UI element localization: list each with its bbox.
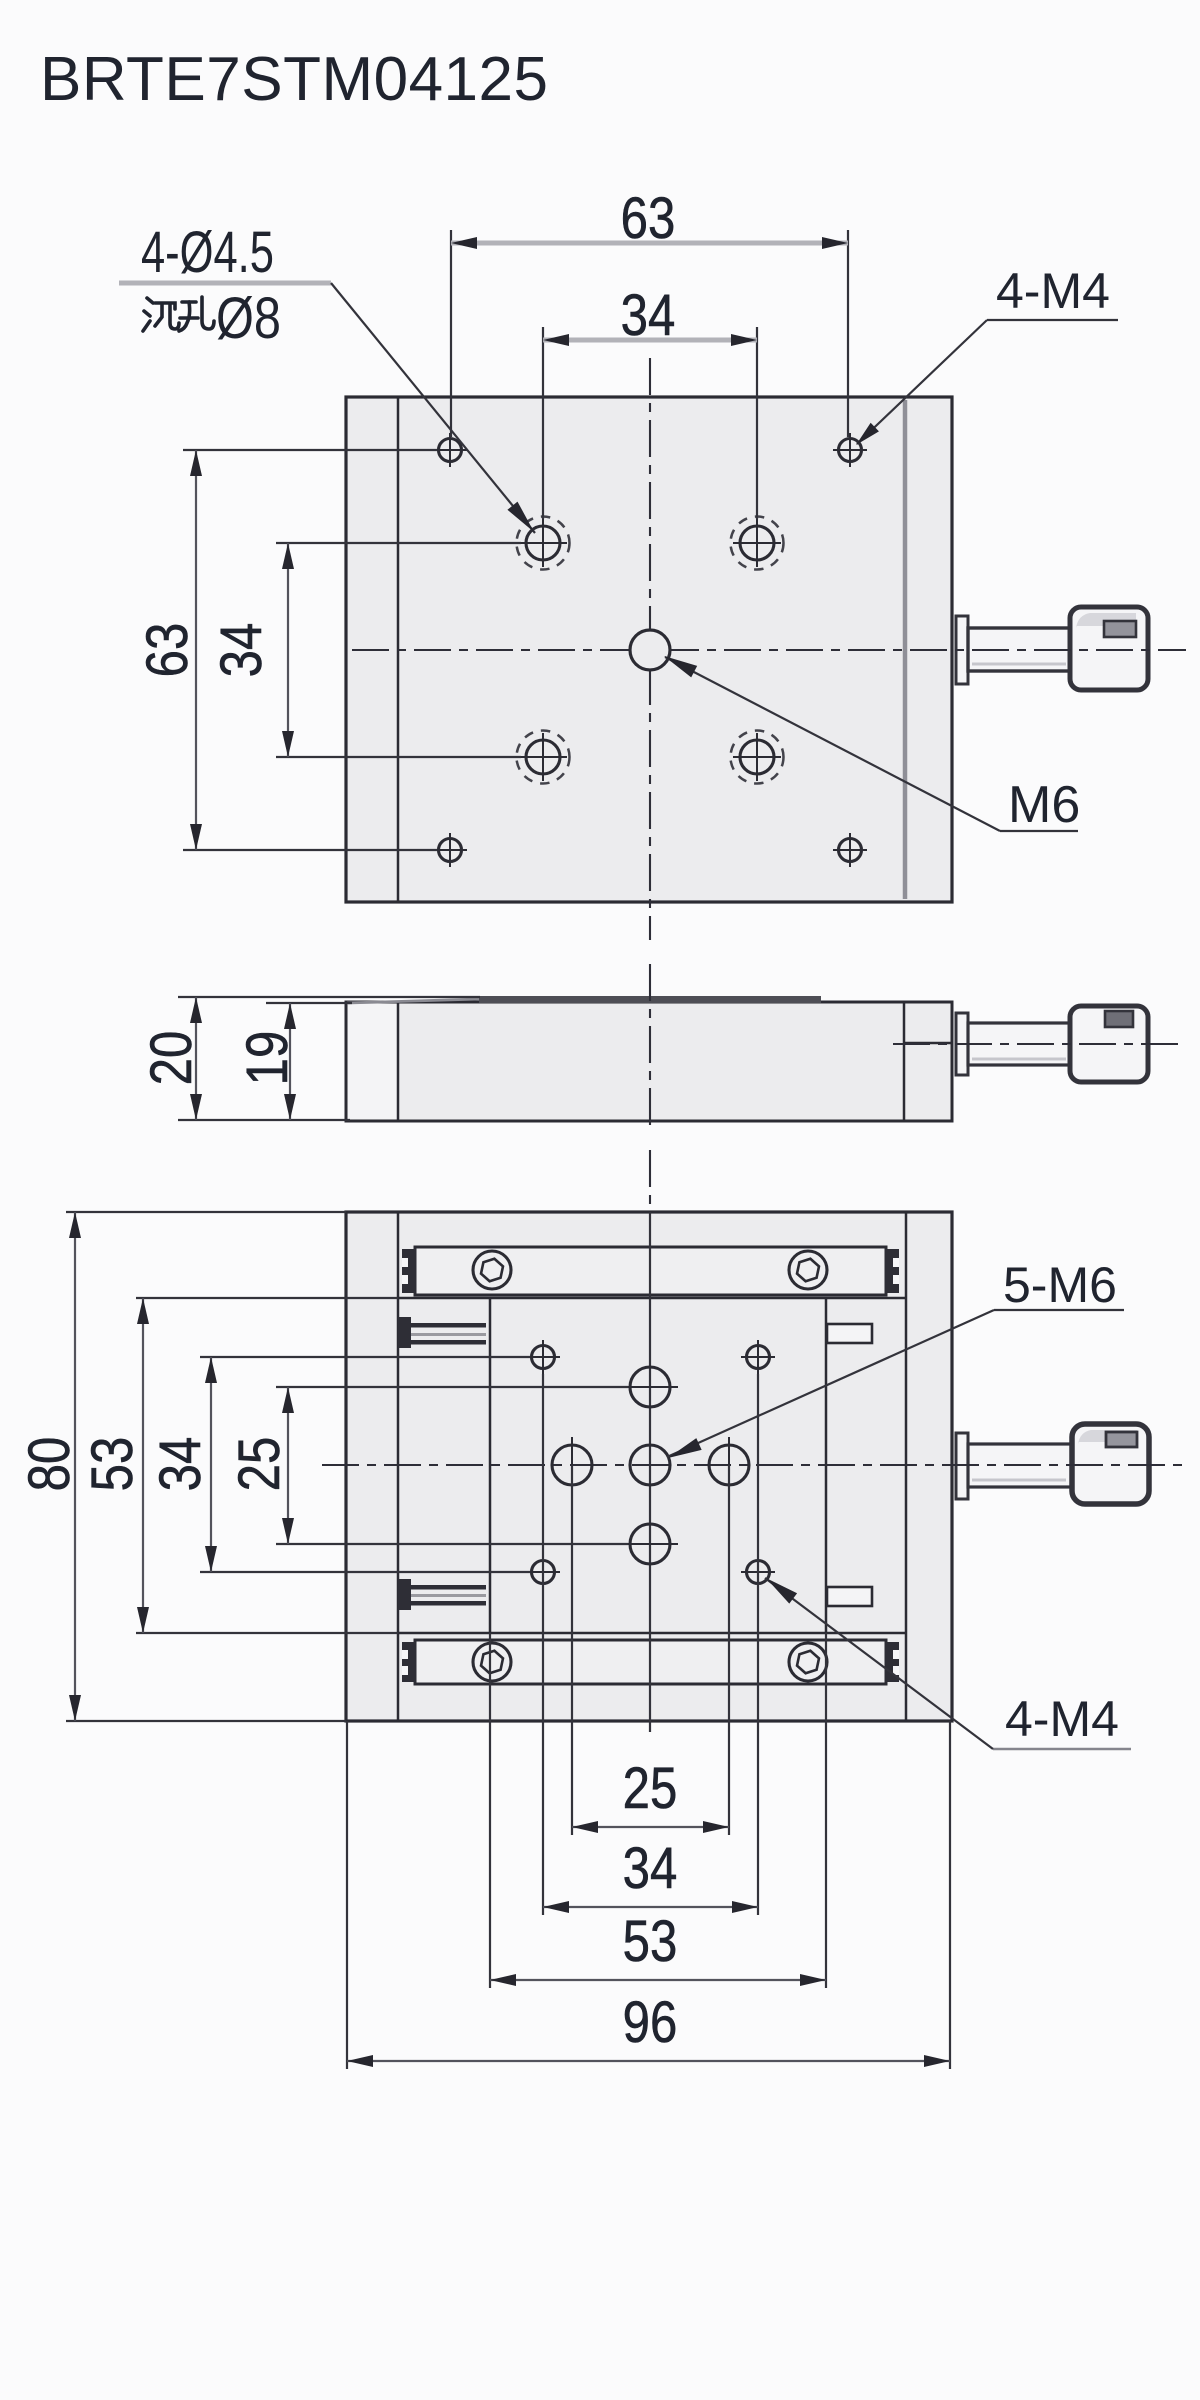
- leader 5-M6 to center hole: [667, 1310, 994, 1457]
- hole M6 right: [709, 1437, 749, 1493]
- label CJK chenkong (counterbore): [143, 297, 214, 331]
- side right step line: [904, 1042, 952, 1045]
- hole M6 left: [552, 1437, 592, 1493]
- dim 19: extension line: [266, 1002, 352, 1004]
- label underline: [119, 281, 331, 286]
- dim 53 bottom: dimension line: [490, 1979, 826, 1981]
- counterbore hole bottom-left: [517, 731, 570, 784]
- leader 4-M4 to hole: [765, 1578, 993, 1749]
- side body: [346, 1002, 952, 1121]
- counterbore hole bottom-right: [731, 731, 784, 784]
- top rail right end block: [885, 1249, 899, 1293]
- dim 20: extension lines: [178, 996, 480, 998]
- hole M6 top (bottom view): [622, 1367, 678, 1407]
- leader to counterbore: [331, 283, 535, 533]
- bottom view vertical centerline (dashed above): [649, 1150, 651, 1212]
- bottom view horizontal centerline: [322, 1464, 1183, 1466]
- dim 53 left: dimension line: [142, 1298, 144, 1633]
- bottom rail left end block: [402, 1642, 416, 1682]
- dim 34 top: dimension line: [543, 338, 757, 343]
- svg-text:80: 80: [17, 1437, 82, 1492]
- hole 4-M4 top-left: [433, 433, 467, 467]
- side vertical centerline: [649, 964, 651, 1130]
- label 4-M4 underline: [987, 319, 1118, 321]
- left striped block bottom (preload screw): [398, 1579, 486, 1610]
- dim 34 top: extension lines: [542, 327, 544, 519]
- right slot top: [827, 1324, 872, 1343]
- knob slot (side view): [1105, 1011, 1133, 1027]
- dim 25 bottom: dimension line: [572, 1826, 729, 1828]
- dim 34 left: extension lines: [200, 1356, 530, 1358]
- bottom rail right end block: [885, 1642, 899, 1682]
- dim 63 left: extension lines: [183, 449, 437, 451]
- top plate body: [346, 397, 952, 902]
- svg-text:25: 25: [227, 1437, 292, 1492]
- dim 63 left: dimension line: [195, 450, 197, 850]
- svg-text:25: 25: [623, 1756, 678, 1821]
- dim 34 left: extension lines: [276, 542, 521, 544]
- carriage top line + 53 extension: [136, 1297, 398, 1299]
- side raised top plate: [479, 996, 821, 1003]
- bottom inner left line: [397, 1212, 400, 1721]
- svg-text:BRTE7STM04125: BRTE7STM04125: [40, 45, 549, 114]
- leader M6 to center hole: [665, 657, 1000, 831]
- extension carriage edges down: [489, 1633, 491, 1988]
- center hole M6 (top view): [630, 630, 670, 670]
- svg-text:53: 53: [623, 1909, 678, 1974]
- dim 19: dimension line: [289, 1003, 291, 1120]
- carriage bottom line + 53 extension: [136, 1632, 398, 1634]
- carriage left edge: [489, 1298, 492, 1633]
- knob slot (bottom view): [1106, 1432, 1137, 1447]
- label 4-M4 underline: [993, 1748, 1131, 1751]
- micrometer shaft (bottom view): [968, 1444, 1072, 1487]
- dim 80: dimension line: [74, 1212, 76, 1721]
- extension M4 columns down: [542, 1374, 544, 1915]
- carriage right edge: [825, 1298, 828, 1633]
- svg-text:4-M4: 4-M4: [996, 263, 1110, 319]
- dim 34 left: dimension line: [210, 1357, 212, 1572]
- svg-text:19: 19: [235, 1031, 300, 1086]
- micrometer flange (top view): [956, 616, 968, 684]
- leader 4-M4 to hole: [857, 320, 987, 444]
- counterbore hole top-left: [517, 517, 570, 570]
- bottom view vertical feature line: [649, 1212, 651, 1732]
- svg-text:53: 53: [80, 1437, 145, 1492]
- svg-text:34: 34: [623, 1836, 678, 1901]
- svg-text:M6: M6: [1008, 776, 1080, 834]
- top rail screw left: [473, 1251, 511, 1289]
- micrometer knob (side view): [1070, 1006, 1148, 1082]
- svg-text:63: 63: [621, 186, 676, 251]
- hole M4 bottom-left (bottom view): [526, 1555, 560, 1589]
- dim 25 left: dimension line: [287, 1387, 289, 1544]
- top plate inner left line: [397, 397, 400, 902]
- side left slope line: [347, 999, 479, 1003]
- svg-text:Ø8: Ø8: [216, 287, 281, 351]
- hole M4 top-right (bottom view): [741, 1340, 775, 1374]
- hole M4 bottom-right (bottom view): [741, 1555, 775, 1589]
- top rail screw right: [789, 1251, 827, 1289]
- side horizontal centerline: [893, 1043, 1180, 1045]
- svg-text:34: 34: [209, 623, 274, 678]
- dim 20: dimension line: [195, 997, 197, 1120]
- micrometer shaft (side view): [968, 1023, 1072, 1065]
- svg-text:96: 96: [623, 1990, 678, 2055]
- bottom rail screw left: [473, 1643, 511, 1681]
- extension M6 columns down: [571, 1465, 573, 1835]
- micrometer knob (bottom view): [1072, 1424, 1149, 1504]
- micrometer knob (top view): [1070, 607, 1148, 690]
- svg-text:4-Ø4.5: 4-Ø4.5: [141, 220, 274, 284]
- left striped block top (preload screw): [398, 1317, 486, 1348]
- hole M4 top-left (bottom view): [526, 1340, 560, 1374]
- svg-text:34: 34: [621, 283, 676, 348]
- label 5-M6 underline: [994, 1309, 1124, 1311]
- svg-text:34: 34: [148, 1437, 213, 1492]
- knob slot (top view): [1104, 621, 1136, 637]
- horizontal centerline (top view): [352, 649, 1186, 651]
- counterbore hole top-right: [731, 517, 784, 570]
- dim 96 bottom: dimension line: [347, 2060, 950, 2062]
- bottom rail screw right: [789, 1643, 827, 1681]
- side inner line right: [903, 1003, 906, 1120]
- dim 34 bottom: dimension line: [543, 1906, 758, 1908]
- right slot bottom: [827, 1587, 872, 1606]
- side left strip: [348, 1004, 397, 1119]
- svg-text:4-M4: 4-M4: [1005, 1691, 1119, 1747]
- dim 63 top: dimension line: [451, 241, 848, 246]
- dim 63 top: extension lines: [450, 230, 452, 437]
- hole M6 center (5-M6): [630, 1445, 670, 1485]
- bottom rail: [415, 1640, 886, 1684]
- top rail left end block: [402, 1249, 416, 1293]
- dim 34 left: dimension line: [287, 543, 289, 757]
- hole M6 bottom (bottom view): [622, 1524, 678, 1564]
- dim 25 left: extension lines: [276, 1386, 628, 1388]
- side inner line left: [397, 1003, 400, 1120]
- bottom inner right line: [905, 1212, 908, 1721]
- hole 4-M4 bottom-right: [833, 833, 867, 867]
- top plate gray right line: [903, 400, 908, 899]
- bottom outer body: [346, 1212, 952, 1721]
- extension outer edges down: [346, 1721, 348, 2069]
- dim 80: extension lines: [66, 1211, 346, 1213]
- micrometer shaft (top view): [968, 628, 1072, 671]
- svg-text:63: 63: [135, 623, 200, 678]
- label M6 underline: [1000, 830, 1078, 832]
- svg-text:5-M6: 5-M6: [1003, 1257, 1117, 1313]
- micrometer flange (bottom view): [956, 1433, 968, 1499]
- vertical centerline (top view): [649, 358, 651, 940]
- micrometer flange (side view): [956, 1013, 968, 1075]
- top rail: [415, 1247, 886, 1295]
- svg-text:20: 20: [139, 1031, 204, 1086]
- hole 4-M4 bottom-left: [433, 833, 467, 867]
- hole 4-M4 top-right: [833, 433, 867, 467]
